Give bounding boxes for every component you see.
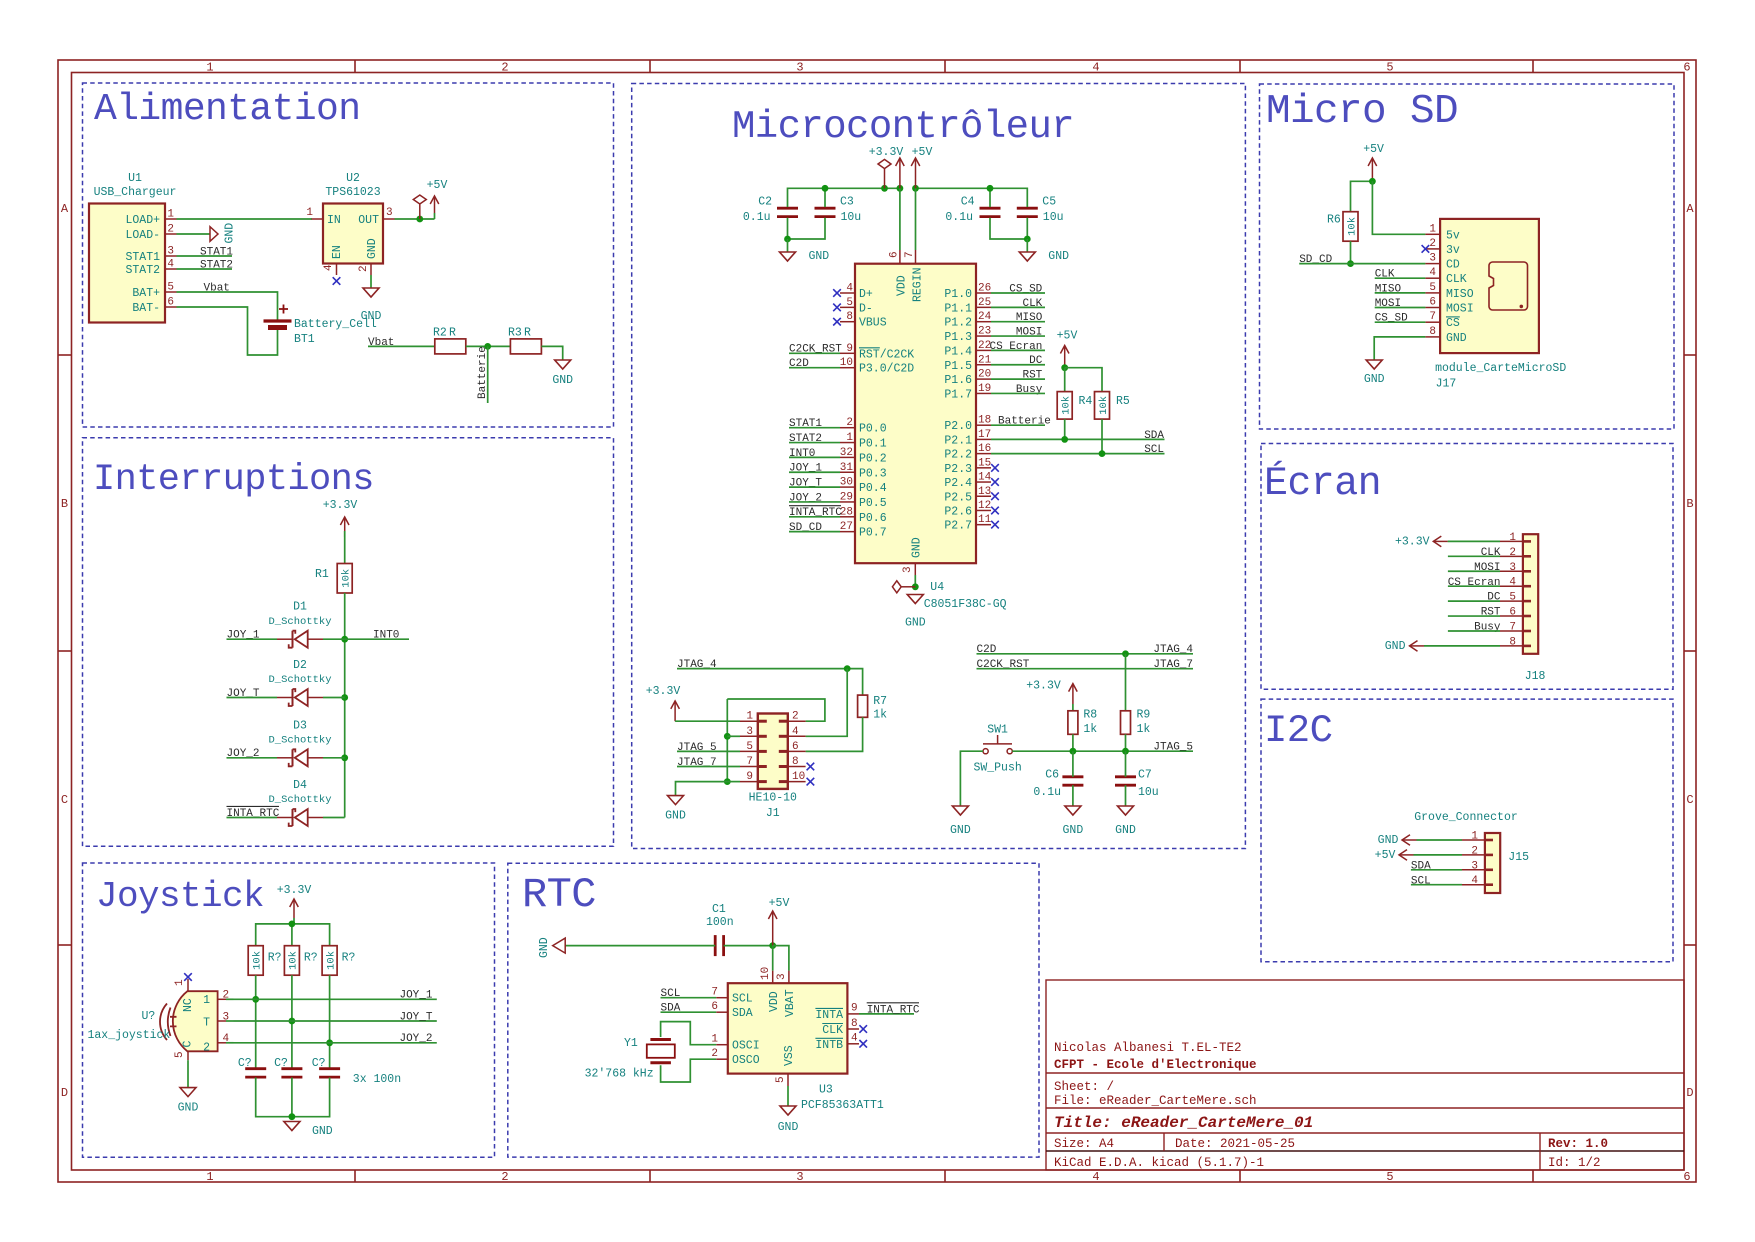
wire MISO from U4 <box>991 321 1045 323</box>
wire to VBAT pin <box>773 946 789 971</box>
net label INTA_RTC RTC <box>867 1003 920 1017</box>
U3 pin 8 CLK <box>847 1028 859 1030</box>
power +5V RTC <box>768 897 789 946</box>
svg-text:P2.4: P2.4 <box>944 477 972 490</box>
svg-text:File: eReader_CarteMere.sch: File: eReader_CarteMere.sch <box>1054 1094 1257 1108</box>
junction +3.3V rail <box>289 921 296 928</box>
resistor R? pullup at x=329.6 <box>322 946 337 976</box>
junction Batterie <box>484 343 491 350</box>
svg-text:JOY_1: JOY_1 <box>399 990 432 1002</box>
wire R to JOY_2 row <box>329 975 331 1068</box>
junction +5V MicroSD <box>1369 178 1376 185</box>
J1 pin 4 <box>788 735 806 737</box>
junction D3 <box>341 754 348 761</box>
ground C7 <box>1115 806 1136 837</box>
svg-text:R?: R? <box>342 952 356 965</box>
svg-text:10: 10 <box>840 357 853 369</box>
wire R3 to GND <box>541 346 562 360</box>
wire R6 to SD_CD <box>1350 241 1352 263</box>
wire +3.3V to R8 <box>1072 704 1074 711</box>
wire STAT2 to U4 <box>789 442 840 444</box>
U3 pin 6 SDA <box>716 1011 728 1013</box>
wire STAT2 <box>177 268 233 270</box>
section box Micro SD <box>1260 84 1675 429</box>
junction +5V RTC <box>769 942 776 949</box>
svg-text:GND: GND <box>809 250 830 263</box>
net label CS_SD MicroSD <box>1375 313 1408 325</box>
svg-text:3: 3 <box>796 61 803 75</box>
no-connect U4 P2.5 <box>991 492 999 500</box>
resistor R3 <box>508 327 541 354</box>
svg-text:C3: C3 <box>840 196 854 209</box>
wire top rail right <box>916 188 1028 207</box>
J1 pin 9 <box>740 781 758 783</box>
svg-text:5: 5 <box>1386 1170 1393 1184</box>
wire J1 pin9 to GND <box>676 782 728 796</box>
svg-text:1ax_joystick: 1ax_joystick <box>88 1029 171 1042</box>
wire Batterie down <box>487 346 489 403</box>
net label JTAG_5 left <box>677 742 717 754</box>
wire R to JOY_T row <box>291 975 293 1068</box>
net label JOY_T right <box>399 1011 432 1023</box>
no-connect U3 INTB <box>859 1040 867 1048</box>
svg-text:6: 6 <box>889 251 901 258</box>
junction D1 <box>341 636 348 643</box>
wire C2CK_RST to U4 <box>789 352 840 354</box>
net label Batterie at U4 <box>998 416 1051 428</box>
U3 pin 4 INTB <box>847 1043 859 1045</box>
svg-text:R5: R5 <box>1116 395 1130 408</box>
svg-text:19: 19 <box>978 383 991 395</box>
net label CLK Ecran <box>1481 547 1501 559</box>
svg-text:4: 4 <box>792 726 799 738</box>
power +5V I2C <box>1375 849 1414 862</box>
svg-text:Title: eReader_CarteMere_01: Title: eReader_CarteMere_01 <box>1054 1114 1313 1132</box>
svg-text:17: 17 <box>978 429 991 441</box>
U4 pin 14 P2.4 <box>976 481 991 483</box>
J15 pin 3 <box>1462 869 1485 871</box>
wire U2 GND down <box>370 275 372 288</box>
wire D1 to bus <box>323 638 345 640</box>
svg-text:D: D <box>61 1086 68 1100</box>
svg-text:5: 5 <box>746 741 753 753</box>
svg-text:10k: 10k <box>325 951 337 970</box>
net label JOY_1 at U4 <box>789 463 822 475</box>
svg-text:1: 1 <box>1509 532 1516 544</box>
svg-text:10: 10 <box>792 771 805 783</box>
svg-text:7: 7 <box>711 987 718 999</box>
wire R to JOY_1 row <box>255 975 257 1068</box>
net label STAT1 at U4 <box>789 418 822 430</box>
net label INT0 <box>373 630 399 642</box>
U2 pin 1 IN <box>312 218 324 220</box>
svg-text:4: 4 <box>846 283 853 295</box>
J18 pin 8 <box>1500 645 1523 647</box>
svg-text:STAT2: STAT2 <box>125 264 160 277</box>
J1 pin 2 <box>788 720 806 722</box>
wire JOY_1 to U4 <box>789 471 840 473</box>
svg-text:6: 6 <box>792 741 799 753</box>
wire U4 GND down <box>914 575 916 587</box>
svg-text:P1.6: P1.6 <box>944 374 972 387</box>
junction REGIN <box>912 185 919 192</box>
svg-text:5: 5 <box>846 297 853 309</box>
U4 pin 9 RST/C2CK <box>840 352 855 354</box>
wire J1 gnd loop top <box>727 699 825 721</box>
svg-text:18: 18 <box>978 415 991 427</box>
svg-text:GND: GND <box>1446 332 1467 345</box>
svg-text:BAT-: BAT- <box>132 302 160 315</box>
connector J1 HE10-10 <box>749 714 797 821</box>
section box Interruptions <box>83 438 614 847</box>
wire MISO row MicroSD <box>1375 292 1426 294</box>
wire C2CK_RST to JTAG_7 right <box>977 668 1194 670</box>
wire JOY_T to U4 <box>789 486 840 488</box>
svg-text:3x 100n: 3x 100n <box>353 1073 401 1086</box>
svg-text:IN: IN <box>327 214 341 227</box>
wire R7 bottom to pin6 row <box>806 717 863 751</box>
U4 pin 17 P2.1 <box>976 438 991 440</box>
U4 pin 6 VDD stub <box>899 250 901 264</box>
wire to pin3 <box>727 735 740 737</box>
power +5V MicroSD <box>1363 143 1384 181</box>
svg-text:+5V: +5V <box>1375 849 1396 862</box>
U4 pin 27 P0.7 <box>840 531 855 533</box>
wire INTA_RTC <box>859 1013 914 1015</box>
U4 pin 24 P1.2 <box>976 321 991 323</box>
resistor R2 <box>433 327 466 354</box>
svg-text:10: 10 <box>760 967 772 980</box>
svg-text:4: 4 <box>1092 61 1099 75</box>
net label JOY_1 right <box>399 990 432 1002</box>
junction R4 top <box>1061 364 1068 371</box>
svg-text:GND: GND <box>911 537 924 558</box>
svg-text:2: 2 <box>501 61 508 75</box>
wire VDD pin up <box>899 188 901 250</box>
no-connect J1 pin10 <box>807 778 815 786</box>
wire interrupt bus vertical <box>344 639 346 817</box>
net label JTAG_4 right <box>1153 644 1193 656</box>
U4 pin 12 P2.6 <box>976 509 991 511</box>
svg-text:Nicolas Albanesi T.EL-TE2: Nicolas Albanesi T.EL-TE2 <box>1054 1041 1242 1055</box>
svg-text:Interruptions: Interruptions <box>93 459 374 501</box>
net label JOY_2 <box>227 748 260 760</box>
J18 pin 7 <box>1500 630 1523 632</box>
connector J15 Grove_Connector <box>1414 811 1529 893</box>
svg-text:PCF85363ATT1: PCF85363ATT1 <box>801 1099 884 1112</box>
section box Joystick <box>83 863 495 1157</box>
wire C7 bottom <box>1125 785 1127 806</box>
resistor R9 <box>1121 709 1151 735</box>
J18 pin 5 <box>1500 600 1523 602</box>
diode D1 D_Schottky <box>277 631 323 648</box>
svg-text:REGIN: REGIN <box>912 267 925 302</box>
svg-text:2: 2 <box>1471 845 1478 857</box>
svg-text:C?: C? <box>238 1057 252 1070</box>
net label MISO at U4 <box>1016 312 1043 324</box>
svg-text:Microcontrôleur: Microcontrôleur <box>732 105 1074 149</box>
svg-text:Écran: Écran <box>1264 460 1381 507</box>
svg-text:3: 3 <box>1429 253 1436 265</box>
svg-text:7: 7 <box>1429 311 1436 323</box>
joystick pin 4 <box>218 1042 226 1044</box>
J1 pin 5 <box>740 750 758 752</box>
power GND I2C <box>1378 834 1417 847</box>
U4 pin 18 P2.0 <box>976 424 991 426</box>
svg-text:P1.3: P1.3 <box>944 331 972 344</box>
svg-text:J18: J18 <box>1525 670 1546 683</box>
U3 pin 5 VSS <box>787 1074 789 1086</box>
net label C2CK_RST right <box>977 659 1030 671</box>
junction C2 gnd <box>784 236 791 243</box>
svg-text:SCL: SCL <box>1144 444 1164 456</box>
net label CLK MicroSD <box>1375 269 1395 281</box>
wire +3.3V to J1 pin1 <box>675 720 740 722</box>
net label JOY_1 <box>227 630 260 642</box>
crystal Y1 32768 kHz <box>585 1037 675 1081</box>
stem power flag 3V3 <box>884 169 886 188</box>
joystick pin 5 (bottom) <box>187 1051 189 1060</box>
ground under U4 <box>905 595 926 630</box>
svg-text:1: 1 <box>306 207 313 219</box>
svg-text:INTA: INTA <box>815 1009 843 1022</box>
IC U3 PCF85363ATT1 <box>728 983 884 1112</box>
J17 pin 8 <box>1425 336 1440 338</box>
svg-text:4: 4 <box>1471 875 1478 887</box>
J18 pin 1 <box>1500 540 1523 542</box>
junction J1 pin9 <box>724 778 731 785</box>
wire CS_Ecran from U4 <box>991 349 1045 351</box>
power +5V REGIN <box>911 146 932 188</box>
svg-text:Sheet: /: Sheet: / <box>1054 1080 1114 1094</box>
ground joystick rail <box>284 1122 300 1131</box>
svg-text:P2.6: P2.6 <box>944 505 972 518</box>
wire SD_CD row <box>1299 263 1425 265</box>
svg-text:P2.2: P2.2 <box>944 449 972 462</box>
svg-text:P0.3: P0.3 <box>859 467 887 480</box>
svg-text:NC: NC <box>182 998 195 1012</box>
svg-text:5: 5 <box>775 1076 787 1083</box>
wire JTAG_5 row <box>677 750 740 752</box>
svg-text:5: 5 <box>1509 592 1516 604</box>
svg-text:25: 25 <box>978 297 991 309</box>
wire C2 gnd down <box>787 239 789 252</box>
svg-text:RST/C2CK: RST/C2CK <box>859 348 914 361</box>
U3 pin 2 OSCO <box>716 1058 728 1060</box>
svg-text:OSCI: OSCI <box>732 1039 760 1052</box>
junction at U2 OUT <box>416 216 423 223</box>
svg-text:EN: EN <box>331 245 344 259</box>
switch SW1 SW_Push <box>983 735 1012 754</box>
wire Vbat to R2 <box>368 345 435 347</box>
svg-text:4: 4 <box>1092 1170 1099 1184</box>
section box Ecran <box>1261 444 1673 690</box>
wire R4 to SDA <box>1064 419 1066 439</box>
wire Busy from U4 <box>991 392 1045 394</box>
svg-text:7: 7 <box>904 251 916 258</box>
no-connect U4 D- <box>833 304 841 312</box>
wire JOY_T to D2 <box>227 697 278 699</box>
wire J1 gnd vertical <box>726 699 728 782</box>
wire JOY_2 to D3 <box>227 757 278 759</box>
wire MOSI from U4 <box>991 335 1045 337</box>
U4 pin 32 P0.2 <box>840 456 855 458</box>
svg-text:6: 6 <box>167 297 174 309</box>
svg-text:P1.7: P1.7 <box>944 388 972 401</box>
svg-text:8: 8 <box>846 311 853 323</box>
ground C4 C5 <box>1019 250 1069 263</box>
wire INT0 stub <box>345 638 409 640</box>
wire C5 gnd down <box>1026 239 1028 252</box>
ground under U3 <box>778 1106 799 1134</box>
ground J1 <box>665 796 686 823</box>
wire D4 to bus <box>323 817 345 819</box>
svg-text:4: 4 <box>1429 267 1436 279</box>
resistor R? pullup at x=291.9 <box>284 946 299 976</box>
svg-text:R7: R7 <box>873 695 887 708</box>
svg-text:C?: C? <box>274 1057 288 1070</box>
capacitor C7 <box>1115 777 1136 785</box>
U4 pin 11 P2.7 <box>976 524 991 526</box>
wire JTAG_7 row <box>677 766 740 768</box>
wire SDA from U4 <box>991 438 1165 440</box>
svg-text:P2.1: P2.1 <box>944 434 972 447</box>
svg-text:U2: U2 <box>346 172 360 185</box>
resistor R1 <box>315 564 353 594</box>
J15 pin 4 <box>1462 884 1485 886</box>
svg-text:1: 1 <box>1429 223 1436 235</box>
wire D2 to bus <box>323 697 345 699</box>
svg-text:JOY_2: JOY_2 <box>399 1033 432 1045</box>
svg-text:1: 1 <box>167 209 174 221</box>
wire SDA I2C <box>1411 869 1462 871</box>
net label CS_Ecran at U4 <box>989 341 1042 353</box>
junction JOY_1 <box>252 996 259 1003</box>
svg-text:C: C <box>182 1041 195 1048</box>
net label SCL <box>1144 444 1164 456</box>
svg-text:P3.0/C2D: P3.0/C2D <box>859 363 914 376</box>
wire INTA_RTC to U4 <box>789 516 840 518</box>
svg-text:26: 26 <box>978 283 991 295</box>
svg-text:23: 23 <box>978 326 991 338</box>
U4 pin 7 REGIN stub <box>915 250 917 264</box>
wire JOY_2 to U4 <box>789 501 840 503</box>
svg-text:module_CarteMicroSD: module_CarteMicroSD <box>1435 362 1566 375</box>
svg-text:GND: GND <box>366 238 379 259</box>
svg-text:USB_Chargeur: USB_Chargeur <box>94 186 177 199</box>
svg-text:1: 1 <box>711 1034 718 1046</box>
net label DC at U4 <box>1029 355 1043 367</box>
svg-text:R6: R6 <box>1327 214 1341 227</box>
U3 pin 7 SCL <box>716 997 728 999</box>
wire C7 top <box>1125 751 1127 777</box>
J17 pin 4 <box>1425 277 1440 279</box>
section box I2C <box>1261 699 1673 962</box>
U4 pin 10 P3.0/C2D <box>840 367 855 369</box>
svg-text:5: 5 <box>1386 61 1393 75</box>
wire C6 bottom <box>1072 785 1074 806</box>
power +3.3V JTAG <box>646 685 681 721</box>
svg-text:C7: C7 <box>1138 769 1152 782</box>
U1 pin 6 <box>165 306 177 308</box>
net label RST Ecran <box>1481 607 1501 619</box>
svg-text:4: 4 <box>851 1033 858 1045</box>
wire INTA_RTC to D4 <box>227 817 278 819</box>
svg-text:C4: C4 <box>961 196 975 209</box>
svg-text:D_Schottky: D_Schottky <box>268 735 331 747</box>
wire SW1 to JTAG_5 row <box>1012 750 1193 752</box>
svg-text:Rev: 1.0: Rev: 1.0 <box>1548 1137 1608 1151</box>
wire MOSI row MicroSD <box>1375 307 1426 309</box>
svg-text:C?: C? <box>312 1057 326 1070</box>
svg-text:+3.3V: +3.3V <box>1395 535 1430 548</box>
svg-text:2: 2 <box>501 1170 508 1184</box>
svg-text:MOSI: MOSI <box>1446 303 1474 316</box>
svg-text:CS: CS <box>1446 317 1460 330</box>
wire +5V node to R6 <box>1351 181 1373 211</box>
svg-text:JTAG_5: JTAG_5 <box>1153 742 1193 754</box>
capacitor <box>715 935 723 956</box>
U1 pin 5 <box>165 291 177 293</box>
ground under joystick <box>178 1088 199 1115</box>
wire OSCI to crystal <box>661 1022 717 1045</box>
svg-text:10u: 10u <box>1043 211 1064 224</box>
svg-text:Date: 2021-05-25: Date: 2021-05-25 <box>1175 1137 1295 1151</box>
svg-text:D2: D2 <box>293 659 307 672</box>
wire R9 to JTAG_5 row <box>1125 734 1127 751</box>
svg-text:24: 24 <box>978 311 992 323</box>
wire GND to C1 <box>564 945 715 947</box>
wire joystick pin5 to GND <box>187 1060 189 1087</box>
ground SW1 <box>950 806 971 837</box>
joystick pin 2 <box>218 998 226 1000</box>
svg-text:8: 8 <box>1429 326 1436 338</box>
svg-text:GND: GND <box>950 824 971 837</box>
svg-text:2: 2 <box>1509 547 1516 559</box>
power flag +3.3V diamond <box>878 159 891 168</box>
U4 pin 19 P1.7 <box>976 392 991 394</box>
no-connect J17 3v <box>1422 245 1430 253</box>
svg-text:0.1u: 0.1u <box>743 211 771 224</box>
U4 pin 4 D+ <box>840 292 855 294</box>
svg-text:5: 5 <box>174 1051 186 1058</box>
U4 pin 8 VBUS <box>840 321 855 323</box>
net label INT0 at U4 <box>789 448 815 460</box>
svg-text:1: 1 <box>203 994 210 1007</box>
svg-text:Y1: Y1 <box>624 1037 638 1050</box>
svg-text:R?: R? <box>268 952 282 965</box>
wire Batterie from U4 <box>991 424 1045 426</box>
net label DC Ecran <box>1487 592 1501 604</box>
wire SD_CD to U4 <box>789 531 840 533</box>
svg-text:P1.0: P1.0 <box>944 288 972 301</box>
svg-text:SCL: SCL <box>732 993 753 1006</box>
wire U1 LOAD+ to U2 IN <box>177 218 313 220</box>
svg-text:SW_Push: SW_Push <box>973 762 1021 775</box>
svg-text:3: 3 <box>746 726 753 738</box>
wire C3 stub top <box>824 188 826 207</box>
title block <box>1046 980 1684 1170</box>
connector J17 module_CarteMicroSD <box>1435 219 1566 391</box>
power +5V <box>427 179 448 213</box>
svg-text:RTC: RTC <box>522 871 596 919</box>
svg-text:HE10-10: HE10-10 <box>749 792 797 805</box>
wire DC from U4 <box>991 364 1045 366</box>
svg-text:KiCad E.D.A. kicad (5.1.7)-1: KiCad E.D.A. kicad (5.1.7)-1 <box>1054 1156 1264 1170</box>
svg-text:R: R <box>449 327 456 340</box>
svg-text:LOAD+: LOAD+ <box>125 214 160 227</box>
wire BAT+ to battery <box>177 292 278 320</box>
